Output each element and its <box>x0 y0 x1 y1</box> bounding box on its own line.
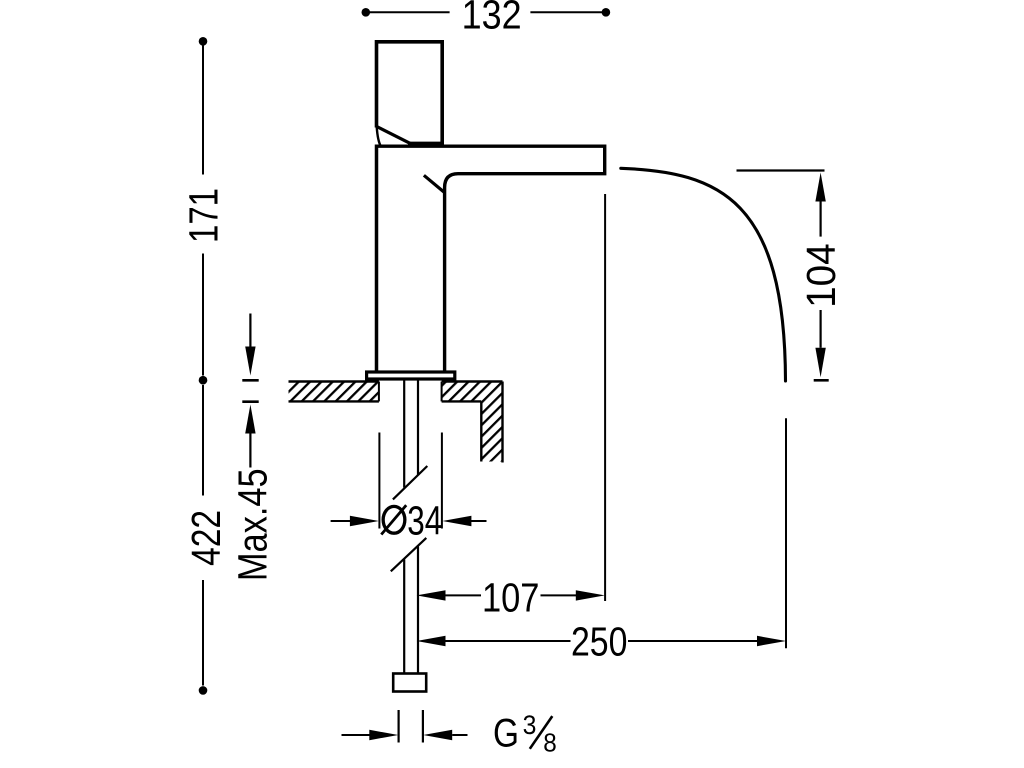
svg-text:8: 8 <box>543 727 557 757</box>
svg-text:107: 107 <box>482 574 540 620</box>
svg-text:132: 132 <box>462 0 522 38</box>
svg-text:3: 3 <box>523 710 537 740</box>
svg-text:250: 250 <box>571 619 628 665</box>
svg-text:G: G <box>493 711 519 755</box>
svg-text:422: 422 <box>183 510 229 566</box>
svg-text:34: 34 <box>407 497 442 543</box>
svg-text:Max.45: Max.45 <box>229 468 275 581</box>
svg-text:171: 171 <box>180 188 226 243</box>
svg-text:104: 104 <box>798 243 844 308</box>
